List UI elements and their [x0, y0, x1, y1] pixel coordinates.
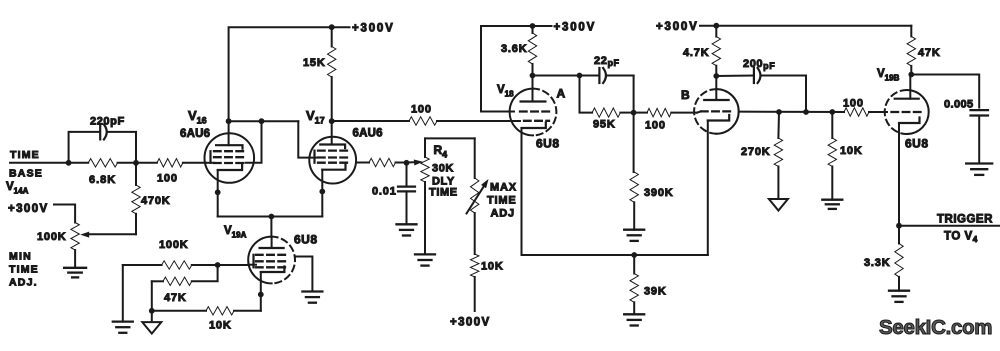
node V18 plate [530, 73, 536, 79]
resistor 47K grid [152, 265, 218, 304]
resistor 100 coupling to V19B [843, 98, 887, 117]
node MIN TIME ADJ label [9, 251, 39, 289]
resistor 270K [741, 112, 783, 199]
resistor 6.8K [69, 159, 136, 186]
svg-text:A: A [557, 87, 566, 101]
wire coupling to V17 grid [298, 121, 316, 157]
svg-text:B: B [681, 88, 690, 102]
node V16 screen tap [259, 118, 265, 124]
ground V19A screen [302, 292, 322, 303]
wire V18 plate node [533, 75, 580, 77]
svg-text:ADJ.: ADJ. [9, 277, 38, 289]
svg-text:15K: 15K [303, 57, 326, 69]
power rail +300V top-left [229, 23, 395, 122]
power rail +300V center [481, 22, 596, 112]
svg-text:100K: 100K [159, 239, 189, 251]
node 3.6K rail junction [530, 23, 536, 29]
wire input [10, 162, 69, 164]
tube V19A 6U8 [224, 225, 318, 283]
node V17 cathode junction [319, 189, 325, 195]
wiper arrow R4 [407, 160, 424, 166]
node cathode bus center [269, 214, 275, 220]
resistor 10K output [828, 112, 862, 200]
resistor 3.6K [501, 26, 537, 76]
svg-text:10K: 10K [209, 320, 232, 332]
svg-text:+300V: +300V [554, 22, 597, 34]
node B plate [713, 73, 719, 79]
svg-text:39K: 39K [644, 286, 667, 298]
wire 220pF loop right [108, 132, 137, 163]
svg-text:100: 100 [157, 173, 178, 185]
tube V19B 6U8 [877, 68, 929, 151]
wiper arrow MAX TIME [467, 179, 489, 214]
resistor 10K timing [471, 254, 504, 311]
node V19A cathode junction [258, 292, 264, 298]
resistor grid stopper V17 [356, 158, 406, 166]
resistor 39K [630, 255, 667, 314]
tube V18 6U8 A [497, 76, 566, 151]
svg-text:0.005: 0.005 [944, 99, 974, 111]
node 6.8K junction [133, 160, 139, 166]
potentiometer R4 30K DLY TIME [421, 138, 475, 254]
wire V18 cathode down [522, 128, 708, 255]
svg-text:TIME: TIME [429, 187, 458, 199]
node TRIGGER label [937, 214, 993, 245]
node grid junction 100K 47K [215, 262, 221, 268]
wire B output line [739, 111, 844, 113]
svg-text:10K: 10K [481, 261, 504, 273]
svg-text:6U8: 6U8 [294, 233, 318, 247]
node V17 plate [329, 118, 335, 124]
node MAX TIME ADJ label [487, 182, 517, 220]
node 200pF junction [803, 109, 809, 115]
tube V18 6U8 B [681, 76, 739, 134]
wire 220pF loop left [69, 132, 100, 163]
resistor 4.7K [683, 26, 721, 76]
potentiometer 100K MIN TIME [37, 223, 79, 268]
svg-text:100: 100 [843, 98, 864, 110]
svg-text:30K: 30K [432, 163, 454, 175]
svg-text:6AU6: 6AU6 [180, 128, 210, 140]
power +300V bottom [450, 317, 491, 329]
wire V19A screen to ground [295, 257, 312, 292]
power +300V left [8, 203, 75, 223]
wire V19A plate lead [270, 217, 272, 238]
node input junction [66, 160, 72, 166]
wiper arrow 100K pot [80, 232, 89, 238]
wire 200pF down [805, 76, 807, 113]
power rail +300V right [656, 21, 911, 33]
node 15K rail junction [329, 24, 335, 30]
tube V16 6AU6 [180, 108, 254, 183]
node 47K 10K ground junction [149, 308, 155, 314]
capacitor 22pF [580, 55, 634, 83]
ground 0.01 [397, 224, 417, 235]
wire grid junction to V19A [218, 264, 249, 266]
svg-text:100K: 100K [37, 231, 67, 243]
node 39K junction [631, 252, 637, 258]
node 47K junction [908, 72, 914, 78]
svg-text:+300V: +300V [8, 203, 49, 215]
svg-text:3.3K: 3.3K [864, 257, 890, 269]
tube V17 6AU6 [306, 108, 383, 184]
svg-text:10K: 10K [840, 145, 863, 157]
svg-text:6U8: 6U8 [536, 137, 560, 151]
wire 47K left down [151, 281, 153, 322]
svg-text:100: 100 [411, 104, 432, 116]
wire rail to 47K [910, 26, 912, 37]
svg-text:47K: 47K [918, 47, 941, 59]
resistor 3.3K [864, 244, 903, 291]
wire V19B cathode [898, 123, 900, 244]
svg-text:BASE: BASE [9, 168, 43, 180]
resistor 390K [630, 113, 674, 230]
resistor 100 input [136, 159, 206, 185]
ground 0.005 [966, 164, 992, 175]
svg-text:6AU6: 6AU6 [353, 128, 383, 140]
ground pot [64, 268, 86, 278]
node V17 output [404, 160, 410, 166]
wire B grid left [697, 111, 701, 112]
svg-text:6.8K: 6.8K [89, 174, 116, 186]
node V16 plate [226, 118, 232, 124]
svg-text:220pF: 220pF [90, 116, 125, 128]
svg-text:TIME: TIME [9, 264, 39, 276]
ground 10K output [822, 200, 842, 209]
capacitor 0.005 [944, 99, 988, 164]
resistor 10K V19A cathode [152, 307, 261, 332]
node V16 cathode junction [215, 189, 221, 195]
wire V16 plate to coupling [229, 120, 299, 122]
node 270K junction [776, 109, 782, 115]
resistor 470K [132, 163, 171, 235]
svg-text:MIN: MIN [9, 251, 32, 263]
svg-text:MAX: MAX [490, 182, 517, 194]
node trigger junction [896, 223, 902, 229]
svg-text:470K: 470K [141, 195, 171, 207]
wire V16 screen vertical [246, 121, 262, 163]
ground 100K left [113, 322, 133, 333]
svg-text:+300V: +300V [656, 21, 699, 33]
wire 22pF down [633, 76, 635, 113]
wire V17 cathode [321, 170, 323, 217]
svg-text:390K: 390K [644, 187, 674, 199]
wire V19A cathode [260, 272, 262, 311]
wire 47K to 0.005 [911, 75, 979, 108]
wire 470K to wiper [86, 233, 136, 235]
svg-text:3.6K: 3.6K [501, 43, 527, 55]
capacitor 220pF [90, 116, 125, 140]
svg-text:47K: 47K [164, 292, 187, 304]
svg-text:270K: 270K [741, 146, 771, 158]
wire TRIGGER output [899, 225, 1000, 227]
ground 3.3K [889, 291, 909, 302]
svg-text:6U8: 6U8 [905, 137, 929, 151]
node A-B coupling junction [631, 110, 637, 116]
node SeekIC watermark [879, 316, 992, 339]
node 10K junction [829, 109, 835, 115]
svg-text:SeekIC.com: SeekIC.com [879, 316, 992, 339]
resistor 15K [303, 27, 336, 121]
wire B cathode down [707, 121, 709, 256]
ground triangle 270K [769, 199, 788, 211]
resistor 47K [907, 36, 940, 74]
resistor 100 coupling V17-V18 [332, 104, 520, 126]
ground R4 [415, 254, 435, 265]
ground triangle left [142, 322, 161, 334]
node 22pF split [577, 73, 583, 79]
svg-text:+300V: +300V [450, 317, 491, 329]
ground 39K [624, 314, 644, 325]
capacitor 0.01 [372, 163, 415, 225]
node 4.7K rail junction [713, 23, 719, 29]
wire cathode bus [218, 216, 323, 218]
svg-text:0.01: 0.01 [372, 186, 397, 198]
svg-text:TIME: TIME [10, 149, 40, 161]
ground 390K [624, 230, 644, 241]
svg-text:+300V: +300V [352, 23, 395, 35]
resistor 100K grid [123, 239, 218, 269]
svg-text:95K: 95K [593, 119, 616, 131]
capacitor 200pF [716, 58, 806, 83]
svg-text:TRIGGER: TRIGGER [937, 214, 993, 226]
svg-text:ADJ: ADJ [491, 208, 515, 220]
svg-text:100: 100 [645, 120, 666, 132]
potentiometer MAX TIME ADJ [471, 138, 479, 254]
wire 100K left to ground [122, 265, 124, 322]
wire V16 cathode [217, 170, 219, 217]
resistor 100 coupling A-B [634, 108, 697, 131]
resistor 95K [580, 76, 634, 131]
node TIME BASE input label [6, 149, 43, 196]
svg-text:4.7K: 4.7K [683, 47, 709, 59]
svg-text:TIME: TIME [487, 195, 516, 207]
